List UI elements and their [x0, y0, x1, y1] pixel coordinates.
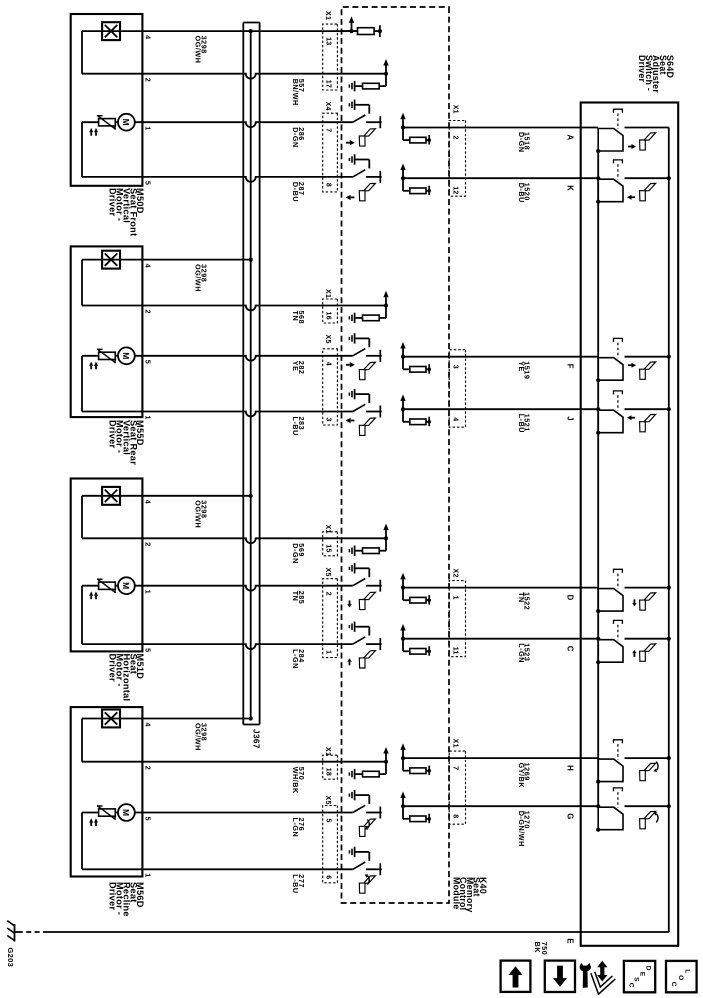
K40 internal: driver circuit on wire at x=806.2 — [401, 804, 405, 808]
svg-text:8: 8 — [452, 814, 459, 818]
label K40 — [452, 877, 488, 913]
self-reset arrows — [95, 596, 97, 599]
position sensor (boxed X) on circuit 3298 — [102, 251, 120, 269]
motor M55D box outline — [71, 246, 143, 417]
svg-text:C: C — [566, 646, 575, 652]
wire circuit 1270 to S64D — [403, 805, 598, 807]
svg-text:D: D — [644, 966, 651, 971]
label 1523 — [517, 643, 532, 663]
svg-text:5: 5 — [144, 181, 153, 185]
wire circuit 569 (pin 2) — [82, 538, 386, 543]
svg-text:D-GN: D-GN — [291, 543, 300, 564]
svg-text:L-GN: L-GN — [517, 643, 526, 663]
K40 connector pin boxes (bottom side) — [323, 24, 338, 90]
self-reset arrows — [95, 366, 97, 369]
svg-text:X4: X4 — [324, 102, 331, 111]
wire circuit 1523 to S64D — [403, 638, 598, 640]
svg-text:GY/BK: GY/BK — [517, 763, 526, 789]
label 277 — [291, 874, 306, 893]
S64D switch contact on wire at x=127.5 — [625, 127, 669, 129]
svg-text:O: O — [677, 975, 684, 980]
wire circuit 1521 to S64D — [403, 408, 598, 410]
svg-text:D-BU: D-BU — [517, 183, 526, 203]
wire circuit 1522 to S64D — [403, 587, 598, 589]
K40 output switch on wire at x=644.1 — [353, 637, 366, 644]
thermal protector — [99, 809, 116, 816]
motor box internal wiring — [81, 260, 83, 306]
label 1520 — [517, 183, 532, 203]
S64D rail junction dots — [667, 176, 671, 180]
icon LOC — [666, 961, 697, 992]
wire circuit 1518 to S64D — [403, 127, 598, 129]
svg-text:C: C — [670, 982, 677, 987]
K40 internal: pull-up and divider to ground on wire at x=761.7 — [384, 760, 388, 764]
wire circuit 3298 OG/WH (pin 4) — [82, 718, 251, 720]
svg-text:H: H — [566, 765, 575, 771]
svg-text:Module: Module — [452, 877, 462, 910]
K40 output switch on wire at x=812.5 — [353, 805, 366, 812]
ground G203 symbol — [15, 931, 20, 933]
svg-text:Driver: Driver — [108, 882, 118, 910]
svg-text:4: 4 — [325, 362, 332, 366]
svg-text:OG/WH: OG/WH — [194, 36, 203, 64]
S64D switch contact on wire at x=758.1 — [625, 757, 669, 759]
K40 internal: driver circuit on wire at x=587.6 — [401, 586, 405, 590]
svg-text:X1: X1 — [324, 289, 331, 298]
label 3298 OG/WH — [194, 500, 209, 528]
K40 internal: driver circuit on wire at x=178.2 — [401, 176, 405, 180]
svg-text:X1: X1 — [452, 739, 459, 748]
label 1518 — [517, 132, 532, 153]
motor box internal wiring — [81, 719, 83, 762]
svg-text:6: 6 — [325, 875, 332, 879]
svg-text:5: 5 — [144, 817, 153, 821]
svg-text:J: J — [566, 416, 575, 420]
svg-text:D-GN: D-GN — [291, 127, 300, 148]
svg-text:2: 2 — [452, 136, 459, 140]
svg-text:3: 3 — [452, 365, 459, 369]
wire circuit 3298 OG/WH (pin 4) — [82, 259, 251, 261]
svg-text:4: 4 — [144, 500, 153, 504]
wire circuit 282 — [135, 356, 353, 361]
junction dot common line — [596, 407, 600, 411]
motor box internal wiring — [81, 496, 83, 539]
svg-text:7: 7 — [452, 766, 459, 770]
svg-text:12: 12 — [452, 186, 459, 194]
S64D internal supply rail — [668, 128, 670, 933]
svg-text:C: C — [627, 983, 634, 988]
wire circuit 285 — [135, 586, 353, 591]
svg-text:4: 4 — [144, 35, 153, 39]
thermal protector — [99, 119, 116, 126]
svg-text:Driver: Driver — [108, 654, 118, 682]
label 569 — [291, 543, 306, 564]
svg-text:TN: TN — [291, 311, 300, 322]
wire circuit 1269 to S64D — [403, 757, 598, 759]
wire circuit 284 — [82, 644, 353, 649]
K40 internal: driver circuit on wire at x=758.1 — [401, 756, 405, 760]
label 276 — [291, 818, 306, 838]
motor symbol M — [118, 577, 135, 594]
position sensor (boxed X) on circuit 3298 — [102, 710, 120, 728]
wire circuit 3298 OG/WH (pin 4) — [82, 495, 251, 497]
wire circuit 557 (pin 2) — [82, 74, 386, 79]
label 568 — [291, 311, 306, 325]
svg-text:J367: J367 — [252, 729, 261, 749]
svg-text:1: 1 — [144, 590, 153, 594]
svg-text:2: 2 — [144, 310, 153, 314]
motor M56D box outline — [71, 707, 143, 876]
motor symbol M — [118, 804, 135, 821]
position sensor (boxed X) on circuit 3298 — [102, 22, 120, 40]
K40 output switch on wire at x=176.9 — [353, 170, 366, 177]
svg-text:X2: X2 — [452, 569, 459, 578]
K40 internal: pull-up and divider to ground on wire at x=305.5 — [384, 303, 388, 307]
K40 output switch on wire at x=585.7 — [353, 579, 366, 586]
K40 internal: driver circuit on wire at x=409.2 — [401, 407, 405, 411]
svg-text:D-GN/WH: D-GN/WH — [517, 811, 526, 847]
thermal protector — [99, 352, 116, 359]
K40 output switch on wire at x=355.8 — [353, 349, 366, 356]
J367 center conductor — [250, 31, 252, 718]
svg-text:A: A — [566, 135, 575, 141]
svg-text:2: 2 — [144, 766, 153, 770]
label M55D — [108, 420, 146, 465]
K40 output switch on wire at x=122.2 — [353, 115, 366, 122]
motor symbol M — [118, 347, 135, 364]
svg-text:18: 18 — [325, 768, 332, 776]
svg-text:4: 4 — [144, 723, 153, 727]
svg-text:4: 4 — [452, 417, 459, 421]
svg-text:L-BU: L-BU — [291, 417, 300, 436]
label 3298 OG/WH — [194, 264, 209, 292]
junction dot common line — [596, 176, 600, 180]
S64D switch contact on wire at x=638.7 — [625, 638, 669, 640]
svg-text:BN/WH: BN/WH — [291, 79, 300, 106]
svg-text:1: 1 — [452, 596, 459, 600]
wire circuit 1520 to S64D — [403, 177, 598, 179]
svg-text:15: 15 — [325, 544, 332, 552]
svg-text:13: 13 — [325, 37, 332, 45]
svg-text:1: 1 — [325, 650, 332, 654]
svg-text:X5: X5 — [324, 568, 331, 577]
bus junction dots on circuit 3298 — [249, 29, 253, 33]
svg-text:L-GN: L-GN — [291, 818, 300, 838]
wire circuit 3298 OG/WH (pin 4) — [82, 30, 358, 32]
svg-text:1: 1 — [144, 126, 153, 130]
wire circuit 277 — [82, 868, 353, 870]
label 283 — [291, 417, 306, 436]
label 284 — [291, 649, 306, 669]
wire circuit 287 — [82, 177, 353, 182]
K40 internal: driver circuit on wire at x=356.7 — [401, 355, 405, 359]
svg-text:Driver: Driver — [637, 55, 647, 83]
svg-text:G: G — [566, 813, 575, 819]
label 557 — [291, 79, 306, 106]
S64D switch contact on wire at x=806.2 — [625, 805, 669, 807]
svg-text:5: 5 — [325, 819, 332, 823]
svg-text:E: E — [639, 972, 646, 977]
svg-text:M: M — [121, 352, 131, 359]
K40 internal: pull-up and divider to ground on wire at x=538.3 — [384, 536, 388, 540]
S64D switch contact on wire at x=587.6 — [625, 587, 669, 589]
label 287 — [291, 182, 306, 202]
svg-text:Driver: Driver — [108, 188, 118, 216]
svg-text:OG/WH: OG/WH — [194, 500, 203, 528]
svg-text:X5: X5 — [324, 796, 331, 805]
svg-text:TN: TN — [517, 592, 526, 603]
svg-text:X1: X1 — [324, 11, 331, 20]
svg-text:2: 2 — [144, 542, 153, 546]
svg-text:D-GN: D-GN — [517, 132, 526, 153]
label 282 — [291, 361, 306, 375]
svg-text:5: 5 — [144, 360, 153, 364]
svg-text:TN: TN — [291, 591, 300, 602]
K40 output switch on wire at x=869.3 — [353, 862, 366, 869]
wire circuit 283 — [82, 412, 353, 417]
self-reset arrows — [95, 132, 97, 135]
label 286 — [291, 127, 306, 148]
label 285 — [291, 591, 306, 605]
svg-text:BK: BK — [533, 942, 542, 954]
S64D switch contact on wire at x=409.2 — [625, 408, 669, 410]
svg-text:YE: YE — [517, 361, 526, 372]
svg-text:1: 1 — [144, 416, 153, 420]
svg-text:G203: G203 — [6, 948, 15, 968]
K40 internal: sensor feed circuit on wire at x=31.1 — [349, 29, 353, 33]
label S64D — [637, 55, 675, 93]
svg-text:WH/BK: WH/BK — [291, 767, 300, 794]
svg-text:8: 8 — [325, 183, 332, 187]
svg-text:D-BU: D-BU — [291, 182, 300, 202]
label M56D — [108, 882, 146, 917]
svg-text:X1: X1 — [452, 105, 459, 114]
svg-text:3: 3 — [325, 418, 332, 422]
svg-text:L: L — [683, 969, 690, 973]
wire circuit 286 — [135, 122, 353, 127]
label 750 BK — [533, 942, 549, 956]
wire circuit 1519 to S64D — [403, 356, 598, 358]
K40 output switch on wire at x=411.5 — [353, 404, 366, 411]
label M51D — [108, 654, 146, 702]
motor box internal wiring — [81, 31, 83, 74]
K40 internal: driver circuit on wire at x=127.5 — [401, 125, 405, 129]
K40 internal: pull-up and divider to ground on wire at x=73.7 — [384, 72, 388, 76]
svg-text:F: F — [566, 364, 575, 369]
svg-text:7: 7 — [325, 128, 332, 132]
in-line harness junction J367 (bus rails) — [259, 23, 261, 725]
S64D switch contact on wire at x=356.7 — [625, 356, 669, 358]
svg-text:M: M — [121, 809, 131, 816]
svg-text:OG/WH: OG/WH — [194, 723, 203, 751]
svg-text:L-BU: L-BU — [517, 414, 526, 433]
svg-text:E: E — [566, 938, 575, 943]
label 1521 — [517, 414, 532, 433]
module K40 Seat Memory Control Module (dashed outline) — [342, 7, 450, 903]
label 3298 OG/WH — [194, 36, 209, 64]
svg-text:L-BU: L-BU — [291, 874, 300, 893]
label 1522 — [517, 592, 532, 610]
icon page-up arrow — [501, 961, 531, 992]
icon wrench and arrows — [593, 973, 614, 991]
label M50D — [108, 188, 146, 236]
junction dot common line — [596, 804, 600, 808]
icon page-down arrow — [545, 961, 575, 992]
svg-text:X5: X5 — [324, 335, 331, 344]
label 1270 — [517, 811, 532, 847]
label 3298 OG/WH — [194, 723, 209, 751]
svg-text:Driver: Driver — [108, 420, 118, 448]
wire circuit 570 (pin 2) — [82, 761, 386, 763]
svg-text:S: S — [633, 977, 640, 982]
svg-text:OG/WH: OG/WH — [194, 264, 203, 292]
svg-text:YE: YE — [291, 361, 300, 372]
svg-text:1: 1 — [144, 873, 153, 877]
S64D-side connector pin boxes (top of K40) — [449, 121, 465, 197]
label 570 — [291, 767, 306, 794]
wire circuit 750 BK ground — [48, 931, 669, 933]
svg-text:17: 17 — [325, 80, 332, 88]
svg-text:5: 5 — [144, 648, 153, 652]
motor M50D box outline — [71, 14, 143, 186]
svg-text:2: 2 — [144, 78, 153, 82]
wire circuit 568 (pin 2) — [82, 306, 386, 311]
svg-text:D: D — [566, 595, 575, 601]
svg-text:M: M — [121, 582, 131, 589]
thermal protector — [99, 582, 116, 589]
svg-text:X1: X1 — [324, 525, 331, 534]
svg-text:11: 11 — [452, 647, 459, 655]
wire circuit 276 — [135, 812, 353, 814]
S64D internal common line — [597, 151, 599, 806]
junction dot common line — [596, 637, 600, 641]
icon DESC — [624, 961, 655, 992]
motor M51D box outline — [71, 479, 143, 652]
svg-text:M: M — [121, 119, 131, 126]
label 1269 — [517, 763, 532, 789]
S64D switch contact on wire at x=178.2 — [625, 177, 669, 179]
label 1519 — [517, 361, 532, 379]
svg-text:L-GN: L-GN — [291, 649, 300, 669]
motor symbol M — [118, 114, 135, 131]
svg-text:2: 2 — [325, 592, 332, 596]
K40 internal: driver circuit on wire at x=638.7 — [401, 637, 405, 641]
self-reset arrows — [95, 823, 97, 826]
svg-text:4: 4 — [144, 264, 153, 268]
position sensor (boxed X) on circuit 3298 — [102, 487, 120, 505]
svg-text:X1: X1 — [324, 747, 331, 756]
svg-text:K: K — [566, 185, 575, 191]
switch assembly S64D Seat Adjuster Switch - Driver (outline) — [581, 103, 679, 946]
svg-text:16: 16 — [325, 312, 332, 320]
